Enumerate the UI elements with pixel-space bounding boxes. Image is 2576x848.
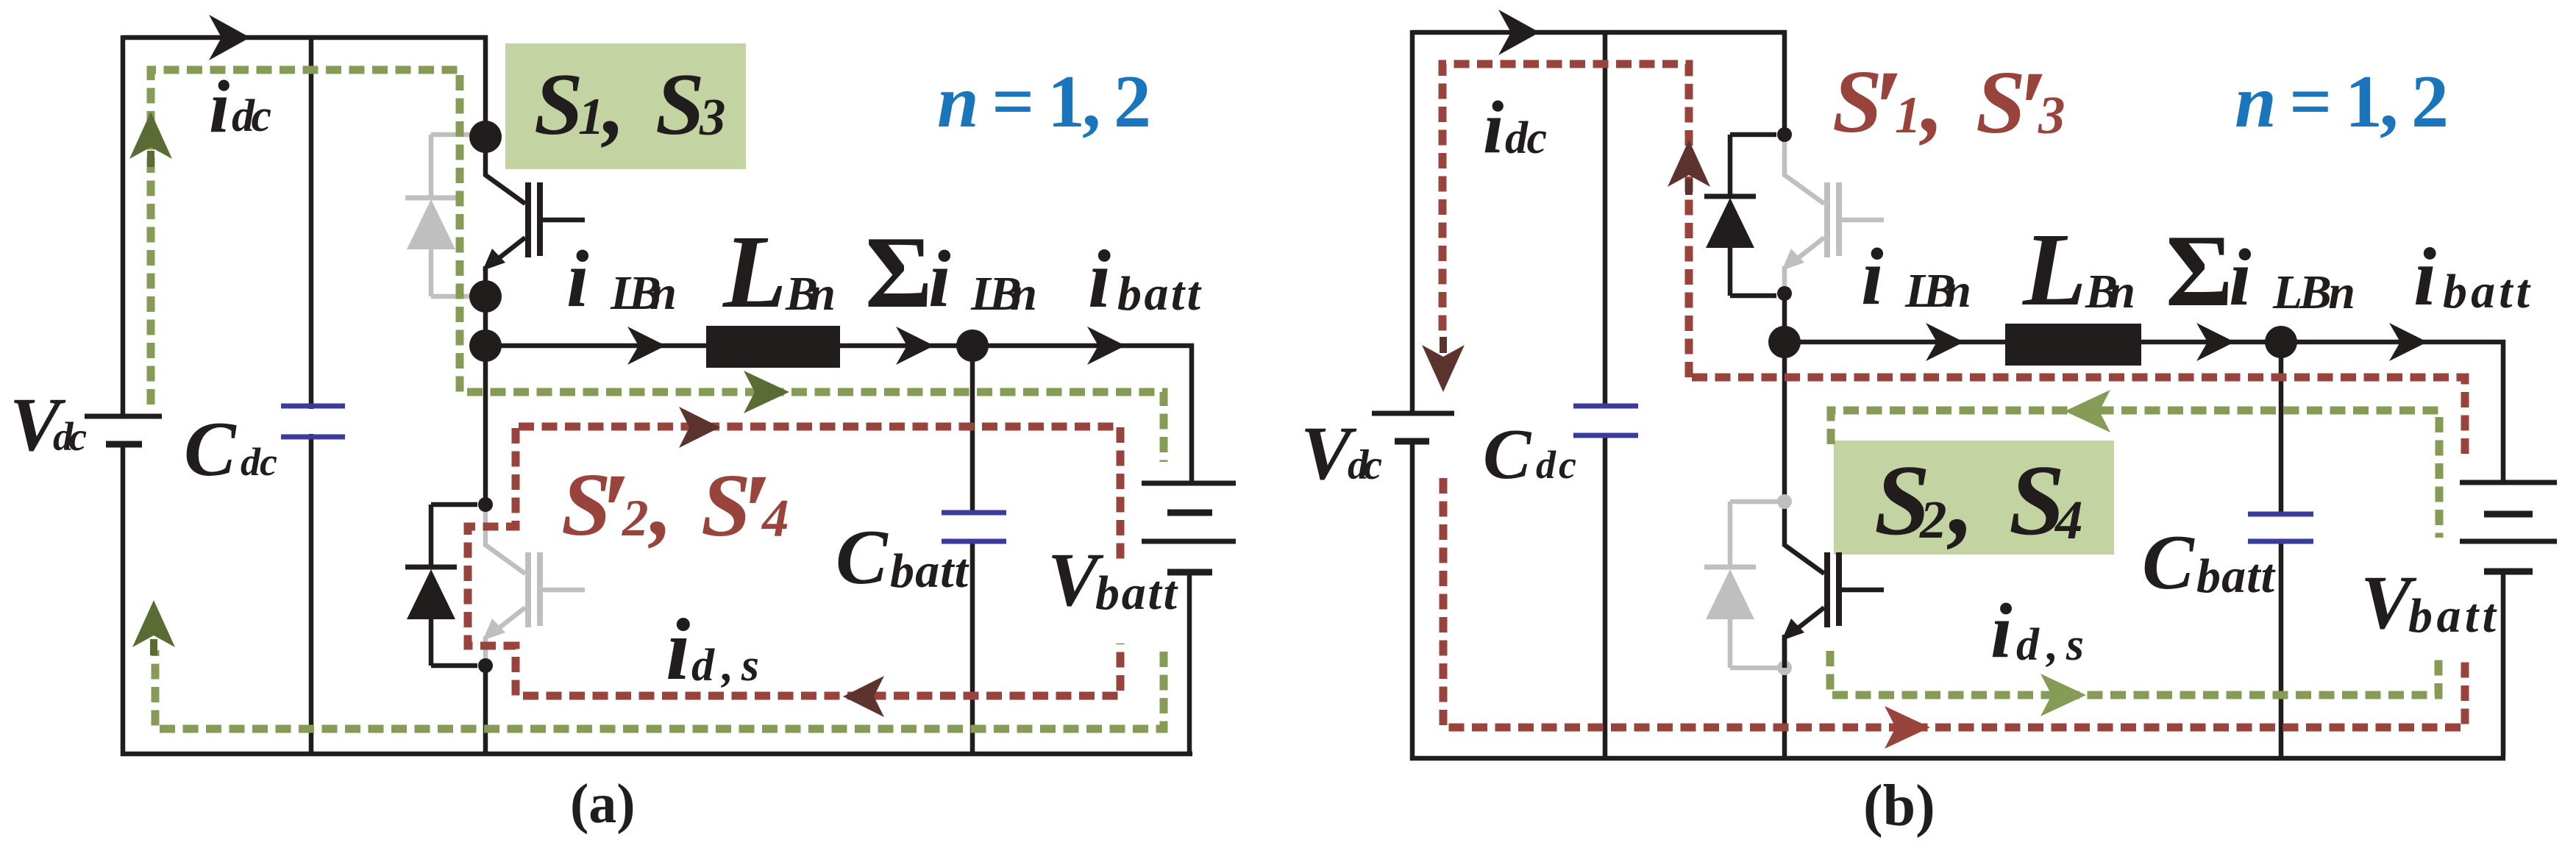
wire: output rail to Vbatt [1785, 342, 2503, 482]
emitter arrowhead S1' (gray) [1782, 249, 1804, 271]
wire: Cbatt branch lower [2279, 543, 2284, 758]
svg-text:i: i [566, 234, 589, 324]
svg-text:1: 1 [578, 88, 605, 146]
wire: Vbatt bottom lead [1187, 572, 1192, 754]
svg-text:LBn: LBn [1904, 264, 1971, 318]
wire: lower switch emitter to bottom bus [483, 663, 488, 754]
arrow i_dc direction on top bus [1498, 10, 1540, 55]
node: midpoint rail junction [1768, 326, 1801, 358]
svg-text:i: i [666, 600, 690, 698]
red dashed freewheel path left/bottom [468, 428, 1120, 696]
node: gray diode top junction [1777, 494, 1792, 509]
svg-text:Bn: Bn [2085, 265, 2135, 318]
wire: lower switch emitter to bottom bus [1782, 635, 1787, 758]
svg-text:2: 2 [622, 490, 649, 547]
red arrow right (bottom) [1885, 706, 1930, 749]
svg-text:,: , [1919, 52, 1944, 152]
red dashed discharge path right [1692, 377, 2465, 459]
wire: Cdc branch lower [1603, 437, 1608, 758]
red arrow up (S1' branch) [1668, 140, 1710, 195]
arrow i_dc direction on top bus [209, 15, 250, 60]
green dashed charge path lower return [155, 650, 1164, 729]
wire: Cbatt branch upper [970, 346, 975, 511]
svg-text:Σ: Σ [865, 215, 933, 329]
green highlight box S1,S3 [505, 43, 746, 169]
svg-text:i: i [1861, 232, 1884, 321]
svg-text:dc: dc [1348, 442, 1382, 488]
diode D2' (gray) [1704, 502, 1785, 668]
svg-text:i: i [928, 234, 951, 324]
svg-text:dc: dc [53, 414, 87, 459]
node: Cbatt junction on rail [956, 329, 989, 362]
transistor S1 IGBT (black) [485, 137, 585, 296]
svg-text:S: S [534, 55, 583, 153]
diode D1' (black, conducting) [1704, 135, 1776, 296]
svg-text:2: 2 [1919, 490, 1947, 549]
svg-text:L: L [722, 213, 787, 329]
svg-text:LBn: LBn [970, 267, 1037, 321]
wire: top bus from Vdc to S1' branch [1412, 32, 1785, 137]
svg-text:batt: batt [1095, 566, 1178, 620]
green arrow up (top-left) [129, 112, 172, 167]
svg-text:4: 4 [761, 488, 789, 548]
wire: bottom bus [1410, 756, 2505, 761]
node: S1' emitter junction [1777, 286, 1792, 301]
arrow i_batt on rail [1087, 327, 1125, 365]
capacitor Cdc plates [281, 404, 345, 409]
node: Cbatt junction on rail [2265, 326, 2297, 358]
svg-text:i: i [1990, 588, 2012, 674]
node: S1 top junction [469, 121, 502, 153]
arrow after inductor [2196, 323, 2235, 361]
red dashed discharge path bottom [1443, 478, 2465, 727]
svg-text:4: 4 [2054, 490, 2083, 551]
wire: left bus upper (Vdc top) [1410, 30, 1415, 411]
svg-text:,: , [648, 455, 673, 555]
svg-text:3: 3 [2038, 85, 2066, 145]
svg-text:n = 1, 2: n = 1, 2 [2235, 60, 2449, 143]
emitter arrowhead S1 [483, 249, 505, 271]
node: midpoint rail junction [469, 329, 502, 362]
capacitor Cbatt plates [942, 510, 1006, 516]
wire: Cdc branch lower [309, 434, 314, 754]
svg-text:dc: dc [1536, 443, 1576, 487]
svg-text:L: L [2021, 211, 2087, 327]
wire: midpoint branch down to lower switch collector [1782, 293, 1787, 546]
svg-text:dc: dc [241, 440, 277, 484]
wire: Vbatt bottom lead [2501, 571, 2506, 758]
diode D2 (black, antiparallel of S2') [405, 505, 477, 666]
transistor S2 IGBT (black, conducting) [1785, 545, 1884, 668]
arrow i_batt on rail [2389, 323, 2427, 361]
svg-text:C: C [184, 406, 237, 492]
red arrow down (left bus) [1422, 337, 1465, 392]
battery Vbatt plates [2460, 480, 2557, 485]
svg-text:n = 1, 2: n = 1, 2 [937, 60, 1151, 143]
svg-text:dc: dc [232, 91, 271, 141]
svg-text:Bn: Bn [785, 267, 836, 321]
arrow after inductor [896, 327, 934, 365]
wire: left bus upper (Vdc top) [121, 35, 126, 414]
svg-text:,: , [1947, 444, 1974, 556]
svg-text:batt: batt [1117, 267, 1202, 321]
svg-text:batt: batt [2408, 589, 2497, 643]
green highlight box S2,S4 [1834, 441, 2114, 555]
capacitor Cdc plates [1573, 404, 1638, 409]
svg-text:batt: batt [890, 544, 969, 598]
wire: output rail to Vbatt [485, 346, 1192, 483]
svg-text:S: S [655, 55, 705, 153]
green dashed ripple path top [1831, 410, 2439, 538]
svg-text:d,s: d,s [2016, 620, 2084, 670]
svg-text:d,s: d,s [691, 641, 759, 691]
green dashed ripple path bottom [1830, 651, 2438, 695]
svg-text:batt: batt [2443, 265, 2531, 318]
green dashed charge path upper loop [151, 70, 1164, 462]
svg-text:C: C [836, 514, 889, 600]
svg-text:batt: batt [2196, 549, 2276, 603]
svg-text:C: C [1483, 415, 1532, 494]
capacitor Cbatt plates [2248, 512, 2313, 517]
svg-text:LBn: LBn [2272, 266, 2355, 319]
svg-text:(a): (a) [570, 773, 636, 835]
transistor S2' IGBT (gray) [485, 507, 585, 666]
node: gray diode bottom junction [1777, 660, 1792, 675]
inductor L_Bn [706, 326, 840, 368]
green arrow right on rail path [744, 371, 789, 413]
diode D1 (gray, antiparallel of S1) [405, 135, 477, 296]
wire: Cbatt branch lower [970, 543, 975, 754]
svg-text:3: 3 [699, 89, 726, 146]
inductor L_Bn [2005, 324, 2141, 366]
wire: top bus from Vdc to S1 branch [123, 38, 485, 137]
svg-text:C: C [2142, 519, 2195, 605]
node: lower switch top junction [478, 497, 493, 512]
red arrow right (top) [679, 407, 720, 448]
emitter arrowhead S2' (gray) [483, 619, 505, 641]
svg-text:,: , [601, 55, 625, 153]
svg-text:i: i [1483, 86, 1504, 169]
wire: Cdc branch upper [309, 38, 314, 409]
svg-text:i: i [2229, 232, 2252, 322]
svg-text:i: i [209, 65, 230, 149]
battery Vdc plates [85, 414, 162, 419]
wire: left bus lower (Vdc bottom) [1410, 441, 1415, 760]
svg-text:i: i [2413, 232, 2436, 323]
node: S1' top junction [1777, 127, 1792, 142]
svg-text:(b): (b) [1863, 774, 1935, 838]
svg-text:Σ: Σ [2166, 214, 2233, 328]
battery Vbatt plates [1142, 481, 1236, 486]
svg-text:LBn: LBn [610, 266, 677, 320]
green arrow left (top) [2065, 390, 2110, 432]
svg-text:dc: dc [1505, 113, 1547, 163]
wire: Cdc branch upper [1603, 32, 1608, 404]
transistor S1' IGBT (gray) [1785, 137, 1884, 293]
svg-text:i: i [1088, 234, 1111, 325]
red arrow left (bottom) [843, 676, 884, 717]
red dashed discharge path top/left [1442, 64, 1689, 377]
arrow i_LBn on rail [1926, 323, 1964, 361]
wire: bottom bus [121, 752, 1192, 757]
node: lower switch bottom junction [478, 658, 493, 673]
green arrow up (bottom-left) [132, 600, 175, 655]
red dashed freewheel path top/right [519, 427, 1120, 565]
wire: midpoint branch down to lower switch collector [483, 296, 488, 509]
svg-text:1: 1 [1895, 87, 1921, 144]
wire: Cbatt branch upper [2279, 342, 2284, 513]
wire: left bus lower (Vdc bottom) [121, 444, 126, 756]
battery Vdc plates [1372, 411, 1454, 416]
arrow i_LBn on rail [627, 327, 666, 365]
emitter arrowhead S2 (black) [1782, 619, 1804, 641]
green arrow right (bottom) [2040, 674, 2086, 716]
node: S1 emitter junction [469, 280, 502, 313]
